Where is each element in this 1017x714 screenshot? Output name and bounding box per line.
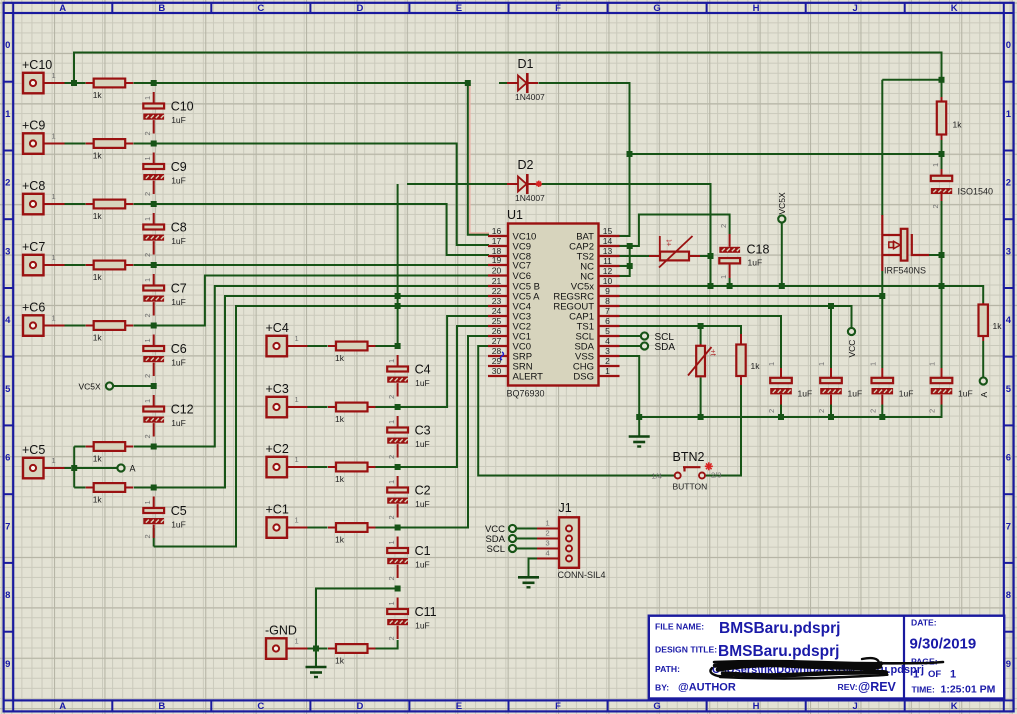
svg-text:G: G: [653, 3, 660, 14]
svg-text:VCC: VCC: [847, 340, 857, 358]
svg-text:B: B: [158, 701, 165, 712]
svg-text:1uF: 1uF: [899, 389, 914, 399]
svg-text:1: 1: [295, 516, 299, 525]
capacitor CB3 1uF bottom right: [872, 368, 894, 405]
svg-text:2: 2: [143, 192, 152, 196]
wire C5 bottom lead: [153, 528, 155, 547]
svg-text:1k: 1k: [335, 474, 345, 484]
svg-text:2: 2: [387, 576, 396, 580]
wire row to ISO1540: [630, 153, 942, 155]
junction +C10/C10: [151, 80, 157, 86]
svg-text:12: 12: [603, 266, 613, 276]
wire node A left: [74, 467, 117, 469]
svg-text:1: 1: [605, 366, 610, 376]
svg-text:4: 4: [5, 315, 11, 326]
svg-text:1k: 1k: [953, 120, 963, 130]
svg-text:2: 2: [817, 409, 826, 413]
svg-text:C11: C11: [415, 605, 437, 619]
svg-text:CONN-SIL4: CONN-SIL4: [558, 570, 606, 580]
wire SCL stub: [620, 335, 641, 337]
node SDA J1: [509, 535, 516, 542]
svg-text:1: 1: [143, 338, 152, 342]
capacitor C1 1uF: [387, 537, 408, 579]
svg-text:2: 2: [387, 636, 396, 640]
junction TS2/thermistor: [708, 253, 714, 259]
svg-text:10: 10: [603, 276, 613, 286]
svg-text:2: 2: [387, 455, 396, 459]
svg-text:1k: 1k: [335, 353, 345, 363]
capacitor C4 1uF: [387, 355, 408, 397]
svg-text:4: 4: [605, 336, 610, 346]
svg-text:3: 3: [5, 246, 10, 257]
junction D1-out/ISO row: [627, 151, 633, 157]
junction ground rail/CB1: [778, 414, 784, 420]
wire BTN left contact lead: [673, 475, 675, 477]
node VC5X top: [778, 215, 785, 222]
svg-text:2: 2: [143, 534, 152, 538]
svg-text:DATE:: DATE:: [911, 618, 937, 628]
wire SCL to J1: [516, 548, 537, 550]
svg-text:A: A: [59, 3, 66, 14]
wire CAP1 cap column: [780, 405, 782, 418]
junction CAP2/NC tie upper: [627, 243, 633, 249]
junction +C3/C3 node: [395, 404, 401, 410]
svg-text:1: 1: [143, 96, 152, 100]
capacitor C12 1uF: [143, 395, 164, 437]
J1 pins: [537, 528, 559, 530]
wire VC4 C5-bottom route: [154, 306, 489, 547]
capacitor ISO1540: [931, 169, 952, 201]
svg-text:REV:: REV:: [838, 682, 858, 692]
svg-text:2: 2: [387, 395, 396, 399]
svg-text:13: 13: [603, 246, 613, 256]
junction C5/R node: [151, 485, 157, 491]
junction ground rail/VSS: [636, 414, 642, 420]
svg-text:1: 1: [817, 362, 826, 366]
wire VC5A C5-top route: [154, 296, 489, 488]
svg-text:J1: J1: [559, 501, 572, 515]
svg-text:A: A: [59, 701, 66, 712]
svg-text:1: 1: [1006, 109, 1012, 120]
op-amp U1 BQ76930 body: [508, 224, 599, 386]
svg-text:26: 26: [492, 326, 502, 336]
wire VC5B C12 route: [154, 286, 489, 447]
svg-text:@AUTHOR: @AUTHOR: [678, 682, 736, 694]
svg-text:+C1: +C1: [266, 502, 289, 516]
terminal +C9: [23, 133, 44, 154]
svg-text:1: 1: [950, 669, 956, 681]
svg-text:B: B: [158, 3, 165, 14]
wire +C8 row: [65, 204, 490, 255]
svg-text:F: F: [555, 701, 561, 712]
svg-text:1uF: 1uF: [171, 115, 186, 125]
svg-text:3: 3: [1006, 246, 1011, 257]
svg-text:3: 3: [546, 539, 550, 548]
svg-text:1: 1: [719, 275, 728, 279]
svg-text:2: 2: [546, 529, 550, 538]
svg-text:21: 21: [492, 276, 502, 286]
junction MOSFET gate/ISO net: [939, 252, 945, 258]
terminal +C3: [267, 397, 288, 418]
wire ISO1540 column: [941, 154, 943, 368]
svg-text:1uF: 1uF: [415, 378, 430, 388]
svg-text:1uF: 1uF: [415, 621, 430, 631]
svg-text:C8: C8: [171, 221, 187, 235]
resistor R-C6 1k: [86, 321, 134, 330]
wire +C3 row: [308, 316, 490, 407]
svg-text:1: 1: [387, 359, 396, 363]
svg-text:+C7: +C7: [22, 240, 45, 254]
wire VC5x rail: [620, 286, 984, 303]
terminal +C10: [23, 73, 44, 94]
node SDA: [641, 342, 648, 349]
resistor R-GND 1k: [328, 644, 376, 653]
wire MOSFET source column: [881, 271, 883, 417]
terminal +C4: [267, 336, 288, 357]
resistor R-C5a 1k: [86, 442, 134, 451]
resistor R-ISO 1k vertical top right: [941, 97, 943, 102]
svg-text:1: 1: [52, 456, 56, 465]
wire +C9 row: [65, 144, 490, 246]
junction -GND node: [313, 646, 319, 652]
svg-text:1N4007: 1N4007: [515, 193, 545, 203]
svg-text:1: 1: [387, 601, 396, 605]
svg-text:9: 9: [605, 286, 610, 296]
svg-text:SDA: SDA: [655, 342, 676, 353]
svg-text:1: 1: [52, 192, 56, 201]
junction +C4/C4 node: [395, 343, 401, 349]
connector J1 CONN-SIL4: [559, 517, 579, 568]
svg-text:BQ76930: BQ76930: [507, 389, 545, 399]
junction C9/C8 node: [151, 201, 157, 207]
svg-text:8: 8: [5, 590, 10, 601]
svg-text:G: G: [653, 701, 660, 712]
svg-text:9: 9: [1006, 659, 1011, 670]
svg-text:5: 5: [1006, 384, 1012, 395]
svg-text:1: 1: [546, 519, 550, 528]
svg-text:20: 20: [492, 266, 502, 276]
junction VC5x/D2 column: [708, 283, 714, 289]
junction ground rail/CB3: [879, 414, 885, 420]
svg-text:C7: C7: [171, 282, 187, 296]
diode D2 1N4007: [507, 174, 538, 194]
terminal +C5: [23, 458, 44, 479]
thermistor RT2 10k TS1: [688, 344, 718, 376]
svg-text:VC6: VC6: [513, 271, 531, 282]
wire SDA stub: [620, 345, 641, 347]
svg-text:1uF: 1uF: [848, 389, 863, 399]
capacitor C8 1uF: [143, 213, 164, 255]
terminal +C2: [267, 457, 288, 478]
terminal pin stubs: [44, 82, 65, 84]
junction ground rail/CB2: [828, 414, 834, 420]
U1 SRP blue no-connect mark: [501, 352, 504, 360]
svg-text:2: 2: [767, 409, 776, 413]
diode D1 1N4007: [507, 73, 538, 93]
svg-text:F: F: [555, 3, 561, 14]
svg-text:1: 1: [143, 217, 152, 221]
svg-text:1uF: 1uF: [748, 258, 763, 268]
node A right: [980, 377, 987, 384]
svg-text:5: 5: [5, 384, 11, 395]
svg-text:+C6: +C6: [22, 300, 45, 314]
svg-text:1: 1: [295, 334, 299, 343]
wire VSS ground stub: [638, 417, 640, 436]
svg-text:1: 1: [295, 395, 299, 404]
svg-text:1: 1: [5, 109, 11, 120]
svg-text:C: C: [257, 3, 264, 14]
svg-text:1uF: 1uF: [415, 560, 430, 570]
svg-text:1: 1: [767, 362, 776, 366]
junction ground rail/thermistor2: [698, 414, 704, 420]
U1 right pin stubs and numbers: [599, 235, 620, 237]
svg-text:BY:: BY:: [655, 683, 669, 693]
wire D2 row: [407, 184, 711, 286]
svg-text:+C10: +C10: [22, 58, 52, 72]
wire +C10 row: [65, 83, 630, 236]
svg-text:2: 2: [931, 204, 940, 208]
terminal +C8: [23, 194, 44, 215]
resistor R-C9 1k: [86, 139, 134, 148]
svg-text:6: 6: [1006, 453, 1011, 464]
svg-text:C9: C9: [171, 160, 187, 174]
svg-text:@REV: @REV: [858, 680, 897, 694]
svg-text:1N4007: 1N4007: [515, 92, 545, 102]
wire +C10 to pin16: [468, 85, 489, 235]
resistor R-C7 1k: [86, 261, 134, 270]
svg-text:BMSBaru.pdsprj: BMSBaru.pdsprj: [719, 620, 840, 637]
wire -GND ground stub: [315, 649, 317, 667]
wire -GND row: [307, 640, 398, 649]
svg-text:+C3: +C3: [266, 382, 289, 396]
svg-text:1: 1: [931, 163, 940, 167]
svg-text:1k: 1k: [93, 151, 103, 161]
svg-text:24: 24: [492, 306, 502, 316]
svg-text:+C2: +C2: [266, 442, 289, 456]
svg-text:25: 25: [492, 316, 502, 326]
svg-text:PATH:: PATH:: [655, 664, 680, 674]
svg-text:C10: C10: [171, 100, 194, 114]
transistor Q1 IRF540NS: [882, 215, 929, 271]
svg-text:1: 1: [143, 500, 152, 504]
wire VC0 BTN route: [478, 346, 674, 476]
svg-text:2: 2: [143, 374, 152, 378]
svg-text:J: J: [853, 3, 858, 14]
junction C7/C6 node: [151, 323, 157, 329]
svg-text:22: 22: [492, 286, 502, 296]
wire SDA to J1: [516, 538, 537, 540]
wire C1-C11 to GND row: [316, 589, 398, 649]
wire MOSFET gate to ISO net: [929, 254, 942, 256]
capacitor CB4 1uF bottom right: [931, 368, 953, 405]
svg-text:1uF: 1uF: [415, 439, 430, 449]
resistor R-C10 1k: [86, 79, 134, 88]
svg-text:BMSBaru.pdsprj: BMSBaru.pdsprj: [718, 643, 839, 660]
svg-text:19: 19: [492, 255, 502, 265]
svg-text:VC5X: VC5X: [777, 192, 787, 215]
svg-text:+C8: +C8: [22, 179, 45, 193]
svg-text:BTN2: BTN2: [673, 450, 705, 464]
svg-text:1uF: 1uF: [171, 176, 186, 186]
svg-text:E: E: [456, 701, 462, 712]
svg-text:2: 2: [387, 515, 396, 519]
resistor R-TS1 1k vertical: [740, 334, 742, 344]
svg-text:1:25:01 PM: 1:25:01 PM: [941, 684, 996, 696]
wire ground rail: [639, 405, 941, 418]
junction VC5A/mid column: [395, 293, 401, 299]
svg-text:4: 4: [546, 549, 550, 558]
wire CAP1 row: [620, 316, 782, 368]
svg-text:1uF: 1uF: [171, 418, 186, 428]
thermistor RT1 10k TS2: [649, 236, 700, 268]
svg-text:H: H: [753, 701, 760, 712]
svg-text:7: 7: [5, 521, 10, 532]
wire +C5 junction branches: [44, 447, 154, 488]
svg-text:1uF: 1uF: [415, 499, 430, 509]
svg-text:K: K: [951, 3, 958, 14]
svg-text:+C4: +C4: [266, 321, 289, 335]
svg-text:0: 0: [5, 40, 10, 51]
capacitor C7 1uF: [143, 274, 164, 316]
junction REGSRC/MOSFET source: [879, 293, 885, 299]
resistor R-C1 1k: [328, 523, 376, 532]
wire REGSRC row: [620, 295, 883, 297]
svg-text:DESIGN TITLE:: DESIGN TITLE:: [655, 645, 717, 655]
resistor R-A 1k vertical: [982, 303, 984, 305]
svg-text:4: 4: [1006, 315, 1012, 326]
svg-text:1: 1: [295, 637, 299, 646]
svg-text:1k: 1k: [335, 535, 345, 545]
svg-text:2: 2: [719, 224, 728, 228]
wire +C7 row: [65, 264, 490, 266]
node SCL: [641, 332, 648, 339]
svg-text:IRF540NS: IRF540NS: [884, 266, 926, 276]
wire +C10 to pin16 (pink shadow): [470, 85, 489, 234]
title block: [649, 616, 1004, 699]
svg-text:+t: +t: [709, 349, 718, 357]
wire 1k nodeA leads: [982, 341, 984, 377]
svg-text:7: 7: [605, 306, 610, 316]
svg-text:SCL: SCL: [487, 544, 505, 555]
junction C1/C11 node: [395, 586, 401, 592]
junction +C10/D1/pin16: [465, 80, 471, 86]
svg-text:1: 1: [143, 278, 152, 282]
svg-text:A: A: [130, 464, 136, 474]
svg-text:K: K: [951, 701, 958, 712]
junction VC4/mid column: [395, 303, 401, 309]
wire VC5X top stub: [781, 223, 783, 286]
capacitor C3 1uF: [387, 416, 408, 458]
svg-text:A: A: [979, 392, 989, 398]
svg-text:1: 1: [52, 132, 56, 141]
svg-text:1uF: 1uF: [798, 389, 813, 399]
svg-text:9/30/2019: 9/30/2019: [910, 636, 977, 653]
svg-text:C4: C4: [415, 363, 431, 377]
svg-text:1k: 1k: [93, 454, 103, 464]
svg-text:+C9: +C9: [22, 118, 45, 132]
svg-text:VC5X: VC5X: [79, 382, 102, 392]
svg-text:D: D: [356, 701, 363, 712]
junction REGOUT/cap column: [828, 303, 834, 309]
wire TS2 row: [620, 255, 711, 257]
svg-text:VC7: VC7: [513, 261, 531, 272]
svg-text:C12: C12: [171, 403, 194, 417]
terminal +C1: [267, 517, 288, 538]
svg-text:ISO1540: ISO1540: [958, 187, 994, 197]
junction +C10/top-rail: [71, 80, 77, 86]
wire MOSFET drain route: [882, 80, 941, 216]
junction +C2/C2 node: [395, 464, 401, 470]
ground symbol -GND: [306, 667, 327, 677]
svg-text:1: 1: [387, 480, 396, 484]
svg-text:C2: C2: [415, 484, 431, 498]
svg-text:C5: C5: [171, 504, 187, 518]
svg-text:2: 2: [143, 253, 152, 257]
svg-text:9: 9: [5, 659, 10, 670]
resistor R-C4 1k: [328, 342, 376, 351]
svg-text:8: 8: [1006, 590, 1011, 601]
resistor R-C8 1k: [86, 200, 134, 209]
node VCC: [848, 328, 855, 335]
resistor R-C2 1k: [328, 463, 376, 472]
wire +C2 row: [308, 326, 490, 467]
svg-text:1k: 1k: [93, 272, 103, 282]
svg-text:2: 2: [928, 409, 937, 413]
capacitor C2 1uF: [387, 476, 408, 518]
svg-text:1: 1: [52, 71, 56, 80]
svg-text:C: C: [257, 701, 264, 712]
svg-text:2: 2: [5, 178, 10, 189]
svg-text:2/3: 2/3: [711, 471, 721, 480]
junction +C5 node: [71, 465, 77, 471]
button BTN2: [675, 467, 705, 478]
svg-text:1k: 1k: [93, 333, 103, 343]
terminal +C6: [23, 315, 44, 336]
wire REGOUT cap column: [830, 306, 832, 417]
capacitor C18 1uF: [719, 234, 740, 286]
capacitor CB2 1uF bottom right: [820, 368, 842, 405]
wire VCC to J1: [516, 528, 537, 530]
resistor R-C5b 1k: [86, 483, 134, 492]
svg-text:ALERT: ALERT: [513, 372, 544, 383]
svg-text:1k: 1k: [93, 495, 103, 505]
junction VC5x/C18: [727, 283, 733, 289]
wire mid D2 column: [397, 184, 399, 346]
junction +C1/C1 node: [395, 525, 401, 531]
svg-text:1uF: 1uF: [171, 358, 186, 368]
svg-text:1: 1: [869, 362, 878, 366]
wire J1 pin4 to ground: [529, 559, 538, 578]
svg-text:23: 23: [492, 296, 502, 306]
svg-text:C3: C3: [415, 424, 431, 438]
svg-text:1uF: 1uF: [171, 297, 186, 307]
svg-text:D: D: [356, 3, 363, 14]
wire top rail BAT net: [74, 53, 942, 98]
svg-text:2: 2: [143, 434, 152, 438]
svg-text:30: 30: [492, 366, 502, 376]
U1 left pin stubs and numbers: [488, 235, 508, 237]
svg-text:3: 3: [605, 346, 610, 356]
svg-text:1k: 1k: [93, 90, 103, 100]
resistor R-C3 1k: [328, 403, 376, 412]
terminal -GND: [266, 638, 287, 659]
wire +C4 row: [308, 345, 398, 347]
capacitor C6 1uF: [143, 335, 164, 377]
svg-text:+C5: +C5: [22, 443, 45, 457]
wire VSS ground route: [620, 356, 640, 417]
junction CAP2/NC tie lower: [627, 263, 633, 269]
svg-text:11: 11: [603, 256, 612, 266]
